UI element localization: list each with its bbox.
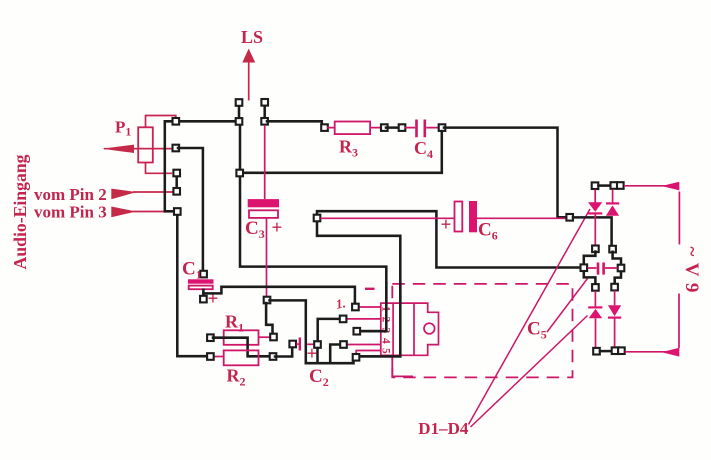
node LS junction 1: [236, 118, 243, 125]
node P1 wiper: [173, 145, 180, 152]
capacitor C6 filled plate: [469, 201, 477, 232]
node bridge bottom left (T8): [593, 348, 600, 355]
diode D4 cathode bar: [608, 317, 621, 319]
node R3 right: [381, 124, 388, 131]
svg-text:+: +: [441, 215, 452, 236]
node C4 left: [399, 124, 406, 131]
diode D1 top-left lead: [594, 190, 596, 246]
dashed module box: [392, 284, 572, 378]
arrow vom Pin 3: [111, 207, 136, 218]
wire bridge top bus: [573, 217, 612, 246]
node C2 right: [314, 341, 321, 348]
wire T2 staircase to T4: [584, 252, 596, 265]
potentiometer P1 leads: [104, 116, 176, 174]
wire link pin2/pin3 terminals: [175, 173, 178, 191]
wire R1 left through body to R2 right: [213, 338, 270, 357]
wire P1 bus left: [165, 121, 176, 211]
wire vom Pin 2 to node: [133, 191, 173, 193]
wire LS pin 2 stub: [263, 106, 266, 118]
node R2 left: [207, 353, 214, 360]
wire bridge bottom bus: [600, 350, 611, 353]
wire T5 staircase down to T7: [615, 272, 621, 285]
potentiometer P1 body: [138, 127, 153, 162]
capacitor C1 bottom lead: [202, 290, 205, 296]
wire LS pin 1 stub: [238, 106, 241, 118]
node vom Pin 3: [174, 208, 181, 215]
node IC pin 5: [353, 354, 360, 361]
IC pin 4 lead: [347, 344, 381, 346]
node C3 bottom: [264, 297, 271, 304]
diode D2 triangle: [606, 205, 619, 215]
node bridge input left: [566, 214, 573, 221]
node C1 top: [200, 271, 207, 278]
diode D2 top-right lead: [612, 190, 614, 203]
terminal bridge top left: [592, 182, 599, 189]
wire C3 node right-down bus: [270, 300, 354, 363]
capacitor C1 top wire from P1 wiper: [178, 148, 203, 271]
pointer line D1-D4 to top left diode: [469, 209, 591, 425]
IC pin 3 lead: [359, 330, 381, 332]
resistor R2 left lead: [214, 356, 224, 358]
arrow LS: [248, 62, 250, 101]
node R2 right: [270, 353, 277, 360]
node C5 left (T4): [581, 264, 588, 271]
wire IC pin 4 to bottom bus: [330, 345, 340, 362]
wire top row P1 to LS junction: [178, 120, 236, 123]
arrow 9V bottom: [662, 348, 680, 357]
node bridge bottom right a (T9): [612, 347, 619, 354]
wire R3 to C4: [386, 126, 400, 129]
node C6 row junction: [314, 215, 321, 222]
diode D1 triangle: [588, 202, 602, 212]
svg-text:+: +: [307, 344, 318, 365]
node bridge mid right (T3): [609, 246, 616, 253]
node bridge lower right (T7): [611, 284, 618, 291]
wire C6 pink right to bridge: [477, 217, 566, 219]
IC internal line 1: [392, 303, 394, 355]
node LS junction 2: [261, 118, 268, 125]
node bridge lower left (T6): [592, 284, 599, 291]
node R3 left: [321, 124, 328, 131]
svg-text:vom Pin 2: vom Pin 2: [34, 185, 107, 204]
diode D3 cathode bar: [588, 306, 602, 308]
wire bus below vom Pin 3 down to R2: [177, 215, 207, 357]
diode D3 bottom-left lead: [594, 291, 596, 348]
svg-text:LS: LS: [241, 27, 263, 47]
resistor R3 leads: [327, 127, 381, 129]
wire C1 to IC pin 1: [203, 287, 355, 304]
capacitor C6 hollow plate: [455, 202, 463, 232]
dashed module box lower-left corner solid: [392, 358, 413, 377]
node P1 bottom: [173, 170, 180, 177]
wire T3 staircase to T5: [613, 252, 621, 265]
arrow vom Pin 2: [111, 189, 136, 200]
capacitor C2 left plate: [299, 338, 301, 351]
resistor R1 body: [224, 330, 259, 345]
node mid bus junction: [236, 170, 243, 177]
capacitor C1 hollow plate: [189, 286, 213, 290]
wire main bus down from LS junction: [240, 124, 386, 331]
wire C2 right down to bottom bus: [316, 348, 319, 362]
node IC pin 1: [352, 304, 359, 311]
capacitor C4 plates: [417, 120, 425, 138]
resistor R2 body: [224, 350, 259, 365]
resistor R1 right lead: [259, 336, 271, 338]
wire C6 row junction: up-right branch: [317, 211, 581, 267]
terminal bridge top right b: [617, 182, 624, 189]
wire C2 right up to IC pin 2: [318, 319, 340, 341]
svg-text:+: +: [272, 218, 283, 239]
svg-text:Audio-Eingang: Audio-Eingang: [10, 154, 30, 269]
capacitor C2 left stub: [296, 343, 298, 345]
wire mid row to C4 right: [240, 132, 442, 173]
node C5 right (T5): [618, 265, 625, 272]
terminal LS 2: [261, 99, 268, 106]
wire C3 node down to R1 right: [266, 303, 272, 334]
capacitor C5 plates: [598, 263, 604, 275]
diode D1 cathode bar: [588, 212, 602, 214]
resistor R3 body: [335, 122, 370, 135]
arrow 9V top: [662, 182, 680, 191]
capacitor C5 leads: [588, 267, 618, 269]
diode D4 triangle: [608, 305, 621, 316]
pointer line D1-D4 to bottom left diode: [471, 316, 588, 428]
wire between top terminals: [599, 184, 611, 187]
wire C6 row junction: down branch to x400 and pin5: [317, 219, 400, 356]
capacitor C3 bottom lead: [266, 218, 268, 297]
node C2 left: [289, 341, 296, 348]
node C4 right: [439, 124, 446, 131]
node vom Pin 2: [173, 188, 180, 195]
wire 9V top: [624, 185, 666, 187]
node bridge bottom right b (T10): [618, 347, 625, 354]
IC mounting hole: [424, 323, 435, 334]
capacitor C4 leads: [405, 127, 439, 129]
potentiometer P1 wiper arrow: [102, 145, 134, 153]
capacitor C2 right stub: [307, 343, 314, 345]
node R1 left: [207, 334, 214, 341]
capacitor C3 top lead: [264, 125, 266, 199]
pointer line C5 to capacitor: [547, 279, 588, 333]
node IC pin 4: [340, 341, 347, 348]
node P1 top: [173, 118, 180, 125]
wire 9V bracket vertical upper: [678, 192, 680, 245]
IC pin 5 lead: [356, 351, 381, 355]
wire vom Pin 3 to bus: [133, 211, 164, 213]
diode D4 bottom-right lead: [614, 291, 616, 348]
wire C6 pink left: [321, 217, 455, 219]
wire LS junction 2 to R3: [267, 121, 323, 127]
diode D3 triangle: [589, 309, 603, 318]
re-draw black wires crossing IC body: [360, 283, 401, 356]
svg-text:5: 5: [380, 348, 392, 354]
svg-text:4: 4: [380, 338, 392, 344]
terminal bridge top right a: [611, 182, 618, 189]
node IC pin 2: [340, 316, 347, 323]
wire C4 right to bridge top left: [444, 128, 567, 218]
IC body: [381, 303, 439, 355]
wire 9V bracket vertical lower: [678, 294, 680, 349]
svg-text:~ V 9: ~ V 9: [681, 247, 702, 294]
IC internal line 2: [413, 303, 415, 355]
wire R2 right to C2 left: [275, 347, 292, 357]
capacitor C1 filled plate: [188, 279, 214, 283]
wire T4 staircase down to T6: [584, 272, 596, 285]
potentiometer P1 wiper line through body: [134, 148, 173, 150]
wire 9V bottom: [625, 351, 666, 353]
capacitor C3 filled plate: [248, 199, 279, 207]
terminal LS 1: [236, 99, 243, 106]
label minus above IC: [365, 288, 375, 290]
IC pin 1 lead: [358, 306, 381, 308]
svg-text:+: +: [208, 289, 219, 310]
node bridge mid left (T2): [592, 246, 599, 253]
IC pin 2 lead: [346, 318, 381, 320]
node IC pin 3: [354, 328, 361, 335]
svg-text:D1–D4: D1–D4: [418, 419, 469, 438]
diode D2 cathode bar: [606, 202, 619, 204]
svg-text:vom Pin 3: vom Pin 3: [34, 203, 107, 222]
capacitor C3 hollow plate: [249, 210, 278, 218]
node R1 right: [270, 334, 277, 341]
node C1 bottom: [200, 296, 207, 303]
